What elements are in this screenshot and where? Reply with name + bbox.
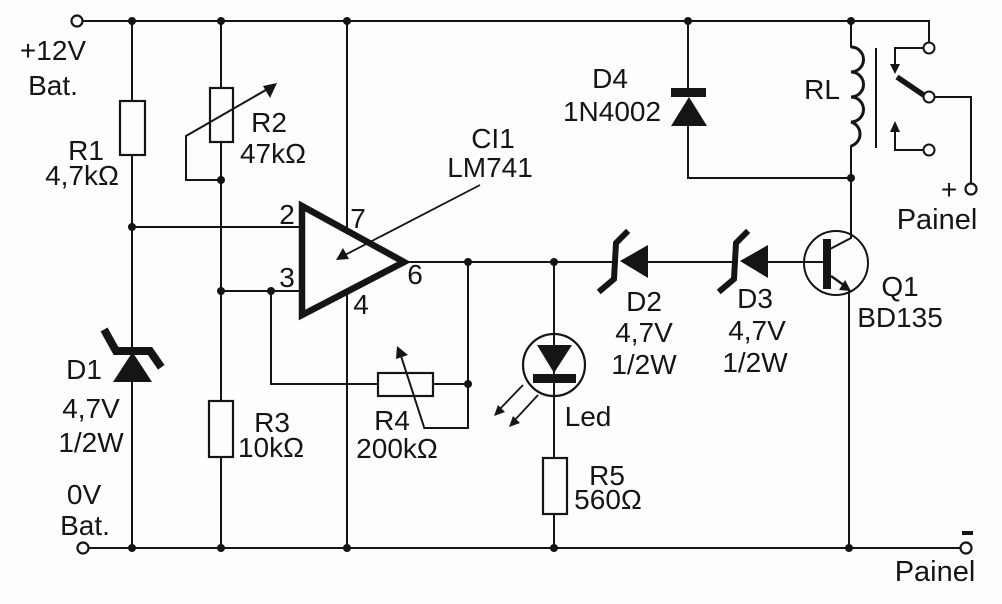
svg-text:1N4002: 1N4002 xyxy=(563,96,661,127)
svg-text:RL: RL xyxy=(804,74,840,105)
junction node top rail relay xyxy=(847,17,855,25)
relay RL coil xyxy=(851,47,864,146)
wire relay NO contact to arm xyxy=(895,48,923,64)
terminal - Painel xyxy=(961,543,972,554)
junction node bottom rail R3 xyxy=(217,544,225,552)
junction node bottom rail R5 xyxy=(550,544,558,552)
resistor R2 body xyxy=(210,88,233,142)
relay NC contact circle xyxy=(924,145,935,156)
junction node pin3 R2 R3 xyxy=(217,287,225,295)
wire node to D1 xyxy=(131,227,133,347)
wire pin 7 to top rail xyxy=(346,21,348,232)
wire feedback from pin3 node to R4 xyxy=(271,291,378,384)
relay separator bar xyxy=(875,48,877,148)
svg-text:7: 7 xyxy=(350,203,366,234)
svg-text:47kΩ: 47kΩ xyxy=(240,138,306,169)
wire R5 to bottom rail xyxy=(553,514,555,548)
wire R2 bottom to pin3 node xyxy=(220,142,222,291)
svg-text:+12V: +12V xyxy=(20,35,86,66)
svg-text:D4: D4 xyxy=(592,63,628,94)
zener diode D3 xyxy=(721,233,768,290)
svg-text:Led: Led xyxy=(565,401,612,432)
junction node pin3 feedback xyxy=(267,287,275,295)
wire R1 column top xyxy=(131,21,133,101)
wire pin 4 to bottom rail xyxy=(346,290,348,548)
relay NC arrow xyxy=(890,121,900,132)
zener diode D2 xyxy=(601,233,648,290)
svg-text:200kΩ: 200kΩ xyxy=(356,433,438,464)
junction node top rail R1 xyxy=(128,17,136,25)
junction node bottom rail D1 xyxy=(128,544,136,552)
R2 wiper arrow xyxy=(186,83,277,136)
wire pin 2 input xyxy=(132,226,300,228)
junction node bottom rail Q1 emitter xyxy=(845,544,853,552)
wire D3 to Q1 base xyxy=(768,261,824,263)
wire R1 bottom to pin2 node xyxy=(131,155,133,227)
LED cathode bar xyxy=(533,374,576,383)
LED indicator circle xyxy=(523,334,585,396)
wire top rail +12V xyxy=(83,21,929,43)
svg-text:D3: D3 xyxy=(737,283,773,314)
svg-text:1/2W: 1/2W xyxy=(722,347,788,378)
wire op-amp output xyxy=(404,261,612,263)
wire R3 top xyxy=(220,291,222,401)
resistor R5 body xyxy=(543,458,567,514)
wire R4 right to output xyxy=(433,383,468,385)
wire D4 top xyxy=(687,21,689,90)
resistor R1 body xyxy=(120,101,145,155)
svg-text:D1: D1 xyxy=(66,354,102,385)
svg-text:560Ω: 560Ω xyxy=(574,484,642,515)
wire output drop to R4 xyxy=(467,262,469,428)
svg-text:4: 4 xyxy=(353,289,369,320)
svg-text:LM741: LM741 xyxy=(447,152,533,183)
relay common contact circle xyxy=(924,92,935,103)
wire relay coil bottom stub xyxy=(850,146,852,179)
svg-text:+: + xyxy=(941,174,957,205)
svg-text:R2: R2 xyxy=(251,107,287,138)
svg-text:3: 3 xyxy=(279,262,295,293)
Q1 emitter with arrow xyxy=(831,276,851,291)
svg-text:1/2W: 1/2W xyxy=(58,427,124,458)
R4 wiper arrow xyxy=(396,346,424,427)
svg-text:2: 2 xyxy=(279,199,295,230)
transistor Q1 circle xyxy=(804,231,868,295)
LED light arrow 1 xyxy=(494,385,523,416)
svg-text:0V: 0V xyxy=(67,479,102,510)
junction node top rail R2 xyxy=(217,17,225,25)
wire R2 column top xyxy=(220,21,222,88)
junction node output LED xyxy=(550,258,558,266)
svg-text:BD135: BD135 xyxy=(857,302,943,333)
wire pin 3 input xyxy=(221,290,300,292)
wire R2 wiper link xyxy=(186,136,221,180)
junction node R4 right xyxy=(464,380,472,388)
wire relay common to + Painel xyxy=(935,97,971,183)
wire LED column xyxy=(553,262,555,458)
svg-text:Painel: Painel xyxy=(897,204,978,236)
Q1 base bar xyxy=(823,239,831,289)
wire relay coil top stub xyxy=(850,21,852,47)
zener diode D1 xyxy=(106,333,159,382)
svg-text:4,7kΩ: 4,7kΩ xyxy=(45,160,119,191)
junction node D4 relay Q1 xyxy=(847,174,855,182)
CI1 callout arrow xyxy=(336,185,480,260)
relay arm xyxy=(897,77,925,96)
svg-text:10kΩ: 10kΩ xyxy=(238,432,304,463)
wire D4 anode to Q1 collector node xyxy=(688,126,851,178)
svg-text:4,7V: 4,7V xyxy=(728,315,786,346)
wire relay NC contact xyxy=(895,131,923,150)
diode D4 1N4002 xyxy=(671,88,707,126)
wire bottom rail 0V xyxy=(89,547,960,549)
svg-text:CI1: CI1 xyxy=(471,123,515,154)
junction node output R4 drop xyxy=(464,258,472,266)
wire Q1 collector xyxy=(830,179,851,249)
svg-text:Bat.: Bat. xyxy=(28,70,78,101)
junction node top rail D4 xyxy=(684,17,692,25)
resistor R3 body xyxy=(209,401,233,457)
terminal +12V Bat. xyxy=(72,16,83,27)
wire Q1 emitter to bottom rail xyxy=(848,290,850,548)
LED triangle xyxy=(537,345,572,373)
wire D1 to bottom rail xyxy=(131,381,133,548)
svg-text:Painel: Painel xyxy=(895,556,976,588)
terminal 0V Bat. xyxy=(78,543,89,554)
junction node bottom rail pin4 xyxy=(343,544,351,552)
terminal + Painel xyxy=(966,184,977,195)
svg-text:6: 6 xyxy=(407,259,423,290)
svg-text:R4: R4 xyxy=(374,405,410,436)
svg-text:4,7V: 4,7V xyxy=(62,393,120,424)
relay arm arrow xyxy=(890,64,900,74)
svg-text:1/2W: 1/2W xyxy=(611,349,677,380)
wire R4 wiper join xyxy=(424,427,468,429)
junction node pin2 R1 D1 xyxy=(128,223,136,231)
wire D2 to D3 xyxy=(648,261,736,263)
resistor R4 body xyxy=(378,373,433,396)
junction node top rail pin7 xyxy=(343,17,351,25)
svg-text:D2: D2 xyxy=(626,286,662,317)
wire R3 to bottom rail xyxy=(220,457,222,548)
op-amp U1 CI1 LM741 xyxy=(302,206,404,315)
relay NO contact circle xyxy=(924,43,935,54)
svg-text:Q1: Q1 xyxy=(881,271,918,302)
LED light arrow 2 xyxy=(509,395,538,427)
svg-text:4,7V: 4,7V xyxy=(615,317,673,348)
svg-text:Bat.: Bat. xyxy=(60,510,110,541)
junction node R2 wiper xyxy=(217,176,225,184)
